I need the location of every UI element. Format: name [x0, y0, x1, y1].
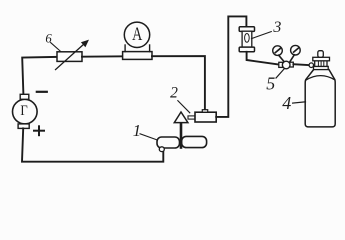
label 6: [45, 31, 52, 45]
svg-text:5: 5: [266, 74, 275, 94]
rheostat 6: [56, 40, 90, 70]
svg-text:A: A: [132, 23, 142, 44]
label 5: [266, 74, 275, 94]
wire: generator bottom, bottom bus, up to electrolyzer nub: [22, 128, 163, 161]
pressure gauge (left): [273, 46, 284, 62]
minus polarity mark: [37, 91, 47, 93]
electrode block 2 (rectangle with top stub): [195, 110, 216, 122]
ammeter A: [123, 22, 152, 59]
connector between nozzle and block: [188, 116, 195, 119]
svg-text:1: 1: [133, 121, 142, 140]
svg-text:2: 2: [170, 84, 178, 101]
nozzle (triangle) of burner 2: [174, 112, 188, 123]
electrode wire from nozzle down into electrolyzer waist: [180, 123, 183, 148]
leader line to label 3: [252, 32, 272, 39]
svg-text:Г: Г: [20, 102, 27, 118]
plus polarity mark: [34, 126, 44, 135]
label 3: [272, 19, 281, 36]
label 4: [282, 93, 291, 113]
electrolyzer 1 (two chambers): [157, 136, 207, 151]
leader line to label 4: [293, 102, 306, 103]
leader line to label 2: [178, 101, 190, 113]
gas pipe: valve 5 to cylinder neck: [293, 63, 313, 68]
pressure gauge (right): [290, 45, 300, 61]
gas pipe: block 2 up and over to flowmeter top: [216, 16, 246, 117]
label 2: [170, 84, 178, 101]
svg-text:4: 4: [282, 93, 291, 113]
wire: top-left segment and left vertical drop to generator: [22, 57, 57, 94]
wire: ammeter to right corner, down to electrode block 2: [152, 56, 205, 110]
leader line to label 5: [276, 69, 284, 78]
leader line to label 1: [140, 134, 157, 140]
leader line to label 6: [51, 43, 61, 52]
flowmeter 3: [239, 27, 254, 52]
generator G (circle with terminals): [12, 94, 37, 128]
gas pipe: flowmeter down and right to valve 5: [247, 52, 279, 65]
reducing valve 5: [279, 61, 294, 69]
svg-text:3: 3: [272, 19, 281, 36]
label 1: [133, 121, 142, 140]
gas cylinder 4: [305, 51, 335, 127]
wire: rheostat to ammeter base: [82, 55, 124, 57]
